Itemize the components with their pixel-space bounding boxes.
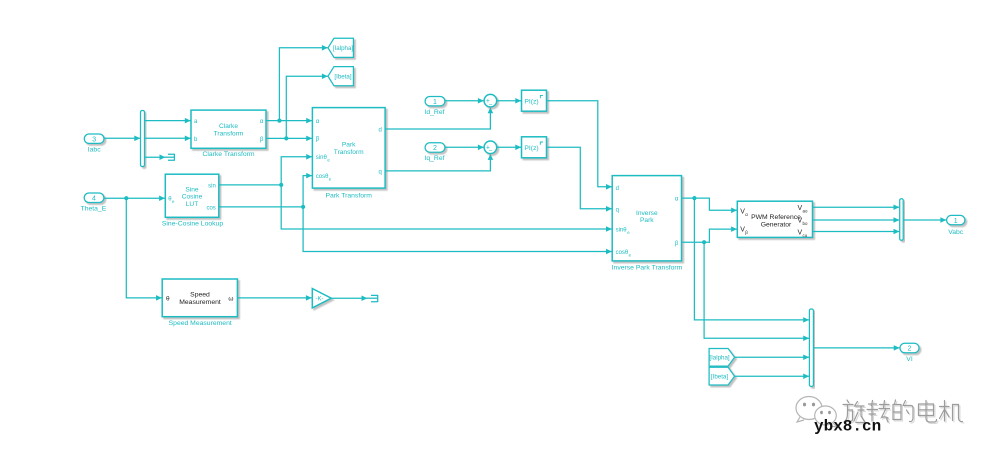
svg-text:Theta_E: Theta_E	[81, 205, 107, 212]
watermark text xuanzhuan de dianji	[844, 401, 964, 424]
block Speed Measurement	[162, 279, 237, 327]
svg-text:Clarke: Clarke	[219, 123, 238, 130]
wire from-Ibeta to mux2	[735, 375, 809, 377]
wire mux2 to VI port	[813, 347, 899, 349]
svg-text:Park: Park	[342, 142, 356, 149]
output port 2 VI	[900, 343, 919, 363]
junction node on beta output	[702, 240, 706, 244]
from tag Ialpha	[709, 349, 735, 367]
goto tag Ibeta	[328, 67, 353, 86]
svg-text:4: 4	[92, 196, 96, 203]
svg-text:[Ialpha]: [Ialpha]	[709, 355, 730, 362]
svg-text:Sine: Sine	[185, 187, 199, 194]
svg-text:bo: bo	[803, 221, 808, 226]
svg-text:sin: sin	[208, 183, 216, 189]
svg-text:[Ibeta]: [Ibeta]	[334, 74, 351, 81]
svg-text:θ: θ	[166, 295, 170, 302]
junction node on alpha output	[692, 196, 696, 200]
wire PI1 to Inverse Park d	[547, 101, 612, 187]
svg-text:Iq_Ref: Iq_Ref	[424, 155, 444, 162]
wire Speed Measurement to gain	[237, 297, 311, 299]
wire branch to goto Ialpha	[279, 48, 327, 121]
wire from-Ialpha to mux2	[735, 356, 809, 358]
svg-text:Measurement: Measurement	[179, 299, 221, 306]
input port 4 Theta_E	[81, 193, 107, 212]
svg-text:Speed: Speed	[190, 292, 210, 299]
wire PWM Vco to mux1	[813, 231, 900, 233]
block Inverse Park	[612, 176, 683, 272]
svg-text:Cosine: Cosine	[182, 194, 203, 201]
terminator T2	[371, 295, 378, 302]
wire Id_Ref to sum1	[445, 100, 484, 102]
wire PWM Vbo to mux1	[813, 219, 900, 221]
svg-text:β: β	[260, 137, 264, 143]
wire Park d feedback to sum1	[385, 108, 490, 129]
output port 1 Vabc	[947, 215, 965, 236]
svg-text:Clarke Transform: Clarke Transform	[202, 151, 254, 158]
svg-text:cos: cos	[206, 205, 215, 211]
wire branch beta to mux2	[704, 242, 809, 338]
svg-text:PI(z): PI(z)	[524, 98, 538, 105]
block Park Transform	[312, 108, 385, 200]
wire Iabc to demux	[104, 137, 140, 139]
junction node on Theta_E wire	[124, 196, 128, 200]
svg-text:sinθ: sinθ	[316, 155, 328, 161]
sum block sum1	[484, 94, 497, 108]
svg-text:2: 2	[908, 346, 912, 353]
demux Demux1	[141, 111, 145, 167]
svg-text:−: −	[489, 148, 493, 155]
input port 2 Iq_Ref	[424, 143, 444, 162]
svg-text:Inverse Park Transform: Inverse Park Transform	[612, 265, 683, 272]
svg-text:d: d	[616, 186, 619, 192]
wire Inverse Park beta to PWM Vbeta	[682, 229, 737, 242]
block Clarke Transform	[191, 110, 266, 158]
svg-text:ybx8.cn: ybx8.cn	[814, 418, 881, 436]
wire LUT sin to Park and Inverse Park	[219, 157, 312, 185]
svg-text:Inverse: Inverse	[636, 210, 658, 217]
wire Clarke beta to Park beta	[266, 137, 312, 139]
svg-text:Id_Ref: Id_Ref	[424, 109, 444, 116]
svg-text:Park Transform: Park Transform	[325, 192, 372, 199]
sum block sum2	[484, 141, 497, 155]
wire branch alpha to mux2	[694, 198, 809, 320]
wire Inverse Park alpha to PWM Valpha	[682, 198, 737, 210]
svg-text:Generator: Generator	[761, 221, 792, 228]
input port 3 Iabc	[84, 134, 104, 153]
svg-text:VI: VI	[906, 356, 913, 363]
block PWM Reference Generator	[737, 201, 812, 238]
wire PI2 to Inverse Park q	[547, 147, 612, 209]
terminator T1	[168, 154, 174, 161]
wire sum2 to PI2	[497, 146, 521, 148]
wire gain to terminator	[331, 297, 367, 299]
svg-text:−: −	[489, 102, 493, 109]
wire PWM Vao to mux1	[813, 206, 900, 208]
svg-text:β: β	[675, 241, 679, 247]
svg-text:Speed Measurement: Speed Measurement	[169, 320, 232, 327]
svg-text:PI(z): PI(z)	[524, 145, 538, 152]
goto tag Ialpha	[328, 38, 353, 57]
from tag Ibeta	[709, 367, 735, 385]
svg-text:[Ialpha]: [Ialpha]	[333, 45, 354, 52]
svg-text:ω: ω	[228, 295, 233, 302]
svg-text:1: 1	[433, 99, 437, 106]
wire demux to terminator	[145, 156, 166, 158]
mux Mux2	[809, 309, 813, 386]
gain block -K-	[312, 289, 331, 308]
svg-text:2: 2	[433, 145, 437, 152]
svg-text:q: q	[616, 207, 619, 213]
svg-text:d: d	[378, 127, 381, 133]
svg-text:Sine-Cosine Lookup: Sine-Cosine Lookup	[162, 221, 223, 228]
svg-text:sinθ: sinθ	[616, 227, 628, 233]
svg-text:co: co	[803, 233, 808, 238]
PI controller PI1	[522, 90, 547, 111]
svg-text:Transform: Transform	[214, 131, 244, 138]
wire Park q feedback to sum2	[385, 154, 490, 171]
svg-text:α: α	[316, 119, 320, 125]
block Sine Cosine LUT	[162, 174, 223, 227]
svg-text:3: 3	[92, 136, 96, 143]
svg-text:ao: ao	[803, 208, 808, 213]
junction node on beta wire	[284, 136, 288, 140]
input port 1 Id_Ref	[424, 97, 444, 116]
wire branch Theta_E to Speed Measurement	[126, 198, 161, 298]
svg-text:Transform: Transform	[334, 149, 364, 156]
svg-text:α: α	[675, 197, 679, 203]
wire Theta_E to Sine Cosine LUT	[104, 197, 165, 199]
mux Mux1	[900, 199, 904, 240]
svg-text:cosθ: cosθ	[316, 174, 329, 180]
svg-text:Iabc: Iabc	[88, 146, 101, 153]
wire Iq_Ref to sum2	[445, 146, 484, 148]
watermark logo bubbles	[796, 397, 837, 428]
svg-text:q: q	[378, 169, 381, 175]
PI controller PI2	[522, 137, 547, 158]
svg-text:α: α	[260, 119, 264, 125]
wire demux to Clarke a	[145, 120, 191, 122]
wire Clarke alpha to Park alpha	[266, 120, 312, 122]
wire branch to goto Ibeta	[286, 76, 327, 138]
svg-text:β: β	[316, 137, 320, 143]
svg-text:[Ibeta]: [Ibeta]	[711, 374, 728, 381]
svg-text:1: 1	[954, 218, 958, 225]
svg-text:α: α	[745, 212, 748, 217]
svg-text:-K-: -K-	[316, 297, 324, 303]
wire demux to Clarke b	[145, 137, 191, 139]
svg-text:PWM Reference: PWM Reference	[751, 214, 801, 221]
svg-text:LUT: LUT	[186, 201, 198, 208]
wire LUT cos to Park and Inverse Park	[219, 176, 312, 207]
svg-text:cosθ: cosθ	[616, 250, 629, 256]
wire sum1 to PI1	[497, 100, 521, 102]
junction node on alpha wire	[277, 119, 281, 123]
svg-text:Park: Park	[640, 217, 654, 224]
wire mux1 to Vabc port	[903, 219, 946, 221]
svg-text:Vabc: Vabc	[948, 229, 964, 236]
